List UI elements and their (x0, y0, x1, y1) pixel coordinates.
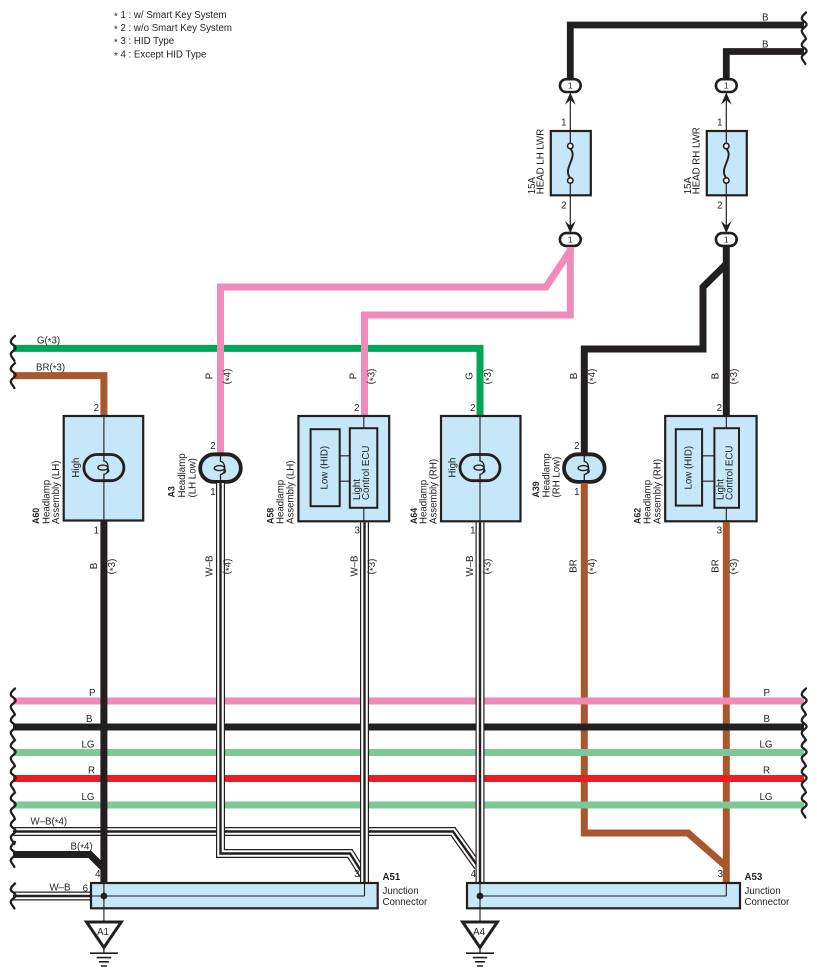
arrow up into RH oval (721, 92, 732, 104)
svg-text:2: 2 (717, 403, 722, 414)
svg-text:W–B: W–B (205, 556, 216, 577)
svg-text:BR: BR (569, 559, 580, 572)
svg-text:2: 2 (210, 441, 215, 452)
fuse element LH (568, 131, 573, 195)
bus wire R (13, 775, 804, 782)
svg-text:W–B: W–B (50, 883, 71, 894)
bus wire LG upper (13, 749, 804, 756)
svg-text:B: B (762, 40, 768, 51)
svg-text:1: 1 (717, 118, 722, 129)
svg-text:2: 2 (94, 403, 99, 414)
wire P branch to A3 pin 2 (221, 247, 571, 454)
label BR (*4) on A39 wire (569, 559, 600, 575)
pin 1 stub line of RH fuse (725, 94, 727, 131)
svg-text:3: 3 (717, 526, 722, 537)
svg-text:(*4): (*4) (587, 559, 600, 575)
svg-text:R: R (763, 766, 770, 777)
wire B feed to RH fuse (thick black, top) (726, 52, 804, 79)
arrow up into LH oval (565, 92, 576, 104)
pin 2 stub line of LH fuse (569, 195, 571, 232)
svg-text:(*3): (*3) (483, 369, 496, 385)
wire B branch to A39 pin 2 (584, 264, 726, 454)
A62 internal pin lines (725, 416, 727, 521)
bus wire B (13, 724, 804, 731)
svg-text:HEAD RH LWR: HEAD RH LWR (691, 127, 702, 194)
svg-text:Junction: Junction (383, 886, 419, 897)
svg-text:W–B: W–B (350, 556, 361, 577)
break symbol right end of RH B wire (802, 39, 807, 64)
svg-text:B(*4): B(*4) (71, 842, 93, 855)
connector oval 1 below LH fuse (560, 233, 581, 246)
svg-text:A62: A62 (633, 508, 643, 524)
svg-text:* 3 : HID Type: * 3 : HID Type (114, 36, 174, 49)
break symbol left end of G wire (11, 336, 16, 361)
svg-text:3: 3 (718, 869, 723, 880)
label A62 Headlamp Assembly (RH) (633, 459, 664, 524)
label W-B (*3) on A64 wire (465, 556, 495, 577)
svg-text:2: 2 (574, 441, 579, 452)
label Light Control ECU A58 (352, 446, 372, 500)
A58 internal pin lines (363, 416, 365, 521)
svg-text:(*4): (*4) (222, 559, 235, 575)
svg-text:Junction: Junction (745, 886, 781, 897)
svg-text:P: P (89, 688, 95, 699)
label W-B (*3) on A58 wire (350, 556, 380, 577)
junction connector A51 box (91, 883, 378, 908)
A60 high-beam bulb (84, 455, 124, 481)
svg-text:BR(*3): BR(*3) (36, 363, 65, 376)
junction node dot A53 (477, 893, 484, 900)
svg-text:G(*3): G(*3) (37, 336, 60, 349)
bus wire W-B into A51 pin 6 (13, 892, 92, 901)
svg-text:1: 1 (724, 235, 729, 245)
svg-text:A58: A58 (265, 508, 275, 524)
svg-text:3: 3 (355, 526, 360, 537)
A62 Light Control ECU inner box (714, 428, 739, 508)
label B (*3) on A60 ground wire (89, 559, 119, 575)
svg-text:W–B: W–B (465, 556, 476, 577)
svg-text:Assembly (RH): Assembly (RH) (652, 459, 663, 524)
svg-text:B: B (89, 563, 100, 569)
wire BR from A39 pin 1 down and right to A53 pin 3 (584, 483, 726, 867)
label G (*3) on A64 branch (465, 369, 496, 385)
A62 links between inner boxes (702, 456, 714, 481)
headlamp connector A39 (RH Low) (564, 454, 605, 482)
label 15A HEAD LH LWR (527, 129, 547, 195)
svg-text:Control ECU: Control ECU (725, 446, 736, 500)
A58 Low (HID) inner box (311, 429, 340, 506)
label A60 Headlamp Assembly (LH) (31, 460, 62, 524)
label B (*4) on A39 branch (569, 369, 599, 385)
wire B from A60 pin 1 down to A51 pin 4 (100, 520, 107, 883)
svg-text:B: B (711, 373, 722, 379)
svg-text:P: P (764, 688, 770, 699)
A64 high-beam bulb (460, 455, 500, 481)
svg-text:1: 1 (568, 235, 573, 245)
svg-text:A53: A53 (745, 872, 763, 883)
svg-text:(*3): (*3) (482, 559, 495, 575)
pin 1 stub line of LH fuse (569, 94, 571, 131)
fuse HEAD RH LWR box (707, 131, 747, 195)
svg-text:A64: A64 (409, 508, 419, 524)
label BR (*3) on A62 wire (711, 559, 742, 575)
svg-text:* 1 : w/ Smart Key System: * 1 : w/ Smart Key System (114, 10, 227, 23)
svg-text:A3: A3 (167, 486, 177, 497)
svg-text:(*3): (*3) (729, 369, 742, 385)
svg-text:1: 1 (210, 487, 215, 498)
svg-text:High: High (448, 458, 459, 478)
A58 Light Control ECU inner box (350, 428, 378, 508)
label A3 Headlamp (LH Low) (167, 453, 199, 497)
svg-text:Low (HID): Low (HID) (683, 446, 694, 490)
svg-text:2: 2 (354, 403, 359, 414)
svg-text:(*4): (*4) (222, 369, 235, 385)
bus wire LG lower (13, 802, 804, 809)
bus wire W-B(*4) joining A64 wire (13, 832, 478, 867)
svg-text:Assembly (LH): Assembly (LH) (51, 460, 62, 524)
svg-text:3: 3 (354, 869, 359, 880)
headlamp assembly A62 box (665, 416, 756, 521)
A51 internal bus (91, 883, 365, 908)
headlamp assembly A60 box (64, 416, 144, 521)
wire G(*3) horizontal to A64 (13, 348, 480, 416)
svg-text:B: B (764, 714, 770, 725)
wire W-B from A3 pin 1 down and right to A51 pin 3 (221, 483, 365, 877)
connector oval 1 below RH fuse (716, 233, 737, 246)
connector oval 1 above RH fuse (716, 79, 737, 92)
label P (*3) on A58 branch (349, 369, 379, 385)
break symbol right end of LH B wire (802, 13, 807, 38)
svg-text:A4: A4 (473, 927, 485, 938)
pin 2 stub line of RH fuse (725, 195, 727, 232)
svg-text:A39: A39 (531, 481, 541, 497)
svg-text:4: 4 (471, 869, 477, 880)
label P (*4) on A3 branch (205, 369, 235, 385)
wire P branch to A58 pin 2 (365, 247, 571, 416)
svg-text:A60: A60 (31, 508, 41, 524)
svg-text:Low (HID): Low (HID) (320, 446, 331, 490)
svg-text:* 2 : w/o Smart Key System: * 2 : w/o Smart Key System (114, 23, 232, 36)
svg-text:W–B(*4): W–B(*4) (31, 817, 68, 830)
svg-text:4: 4 (95, 869, 101, 880)
A58 links between inner boxes (340, 456, 350, 481)
svg-text:LG: LG (760, 740, 773, 751)
svg-text:2: 2 (717, 201, 722, 212)
headlamp connector A3 (LH Low) (200, 454, 241, 482)
svg-text:1: 1 (574, 487, 579, 498)
arrow down into LH lower oval (565, 221, 576, 233)
svg-text:Assembly (RH): Assembly (RH) (428, 459, 439, 524)
label A58 Headlamp Assembly (LH) (265, 460, 296, 524)
headlamp assembly A64 box (441, 416, 521, 521)
svg-text:Connector: Connector (383, 897, 428, 908)
ground A4 (463, 908, 498, 966)
svg-text:HEAD LH LWR: HEAD LH LWR (535, 129, 546, 195)
svg-text:A51: A51 (383, 872, 401, 883)
fuse element RH (724, 131, 729, 195)
svg-text:1: 1 (568, 81, 573, 91)
svg-text:(*4): (*4) (587, 369, 600, 385)
label W-B (*4) on A3 wire (205, 556, 235, 577)
svg-text:(*3): (*3) (366, 369, 379, 385)
svg-text:P: P (349, 373, 360, 379)
label Light Control ECU A62 (716, 446, 736, 500)
svg-text:BR: BR (711, 559, 722, 572)
wire BR from A62 pin 3 down to A53 pin 3 (723, 522, 730, 883)
arrow down into RH lower oval (721, 221, 732, 233)
svg-text:Connector: Connector (745, 897, 790, 908)
connector oval 1 above LH fuse (560, 79, 581, 92)
fuse HEAD LH LWR box (551, 131, 591, 195)
bus wire B(*4) joining A60 wire (13, 855, 104, 869)
svg-text:P: P (205, 373, 216, 379)
svg-text:Assembly (LH): Assembly (LH) (286, 460, 297, 524)
label A53 Junction Connector (745, 872, 790, 908)
break symbol left end of BR wire (11, 363, 16, 388)
svg-text:1: 1 (724, 81, 729, 91)
svg-text:B: B (762, 13, 768, 24)
svg-text:2: 2 (561, 201, 566, 212)
svg-text:(RH Low): (RH Low) (552, 457, 563, 498)
label A51 Junction Connector (383, 872, 428, 908)
svg-text:6: 6 (83, 884, 88, 895)
A62 Low (HID) inner box (676, 429, 702, 505)
svg-text:B: B (86, 714, 92, 725)
wire BR(*3) to A60 pin 2 (13, 376, 104, 416)
svg-text:High: High (71, 458, 82, 478)
svg-text:LG: LG (82, 792, 95, 803)
A64 internal pin lines (479, 416, 481, 521)
label 15A HEAD RH LWR (683, 127, 703, 194)
svg-text:2: 2 (470, 403, 475, 414)
svg-text:1: 1 (561, 118, 566, 129)
ground A1 (87, 908, 122, 966)
svg-text:(*3): (*3) (729, 559, 742, 575)
svg-text:* 4 : Except HID Type: * 4 : Except HID Type (114, 49, 206, 62)
svg-text:A1: A1 (97, 927, 109, 938)
wire W-B from A64 pin 1 down to A53 pin 4 (476, 523, 485, 884)
A60 internal pin lines (103, 416, 105, 521)
wire B branch to A62 pin 2 (723, 247, 730, 416)
headlamp assembly A58 box (298, 416, 389, 521)
svg-text:(*3): (*3) (107, 559, 120, 575)
wire W-B from A58 pin 3 down to A51 pin 3 (360, 523, 369, 884)
svg-text:Headlamp: Headlamp (177, 453, 188, 497)
svg-text:R: R (88, 766, 95, 777)
wire B feed to LH fuse (thick black, top) (570, 25, 804, 78)
bus wire P (13, 698, 804, 705)
A53 internal bus (480, 883, 726, 908)
svg-text:B: B (569, 373, 580, 379)
svg-text:G: G (465, 372, 476, 380)
svg-text:LG: LG (82, 740, 95, 751)
svg-text:Control ECU: Control ECU (361, 446, 372, 500)
svg-text:(*3): (*3) (367, 559, 380, 575)
label B (*3) on A62 branch (711, 369, 742, 385)
svg-text:1: 1 (94, 526, 99, 537)
svg-text:(LH Low): (LH Low) (188, 458, 199, 497)
svg-text:LG: LG (760, 792, 773, 803)
label A64 Headlamp Assembly (RH) (409, 459, 439, 524)
label A39 Headlamp (RH Low) (531, 453, 563, 497)
svg-text:1: 1 (470, 526, 475, 537)
junction node dot A51 (101, 893, 108, 900)
junction connector A53 box (467, 883, 740, 908)
